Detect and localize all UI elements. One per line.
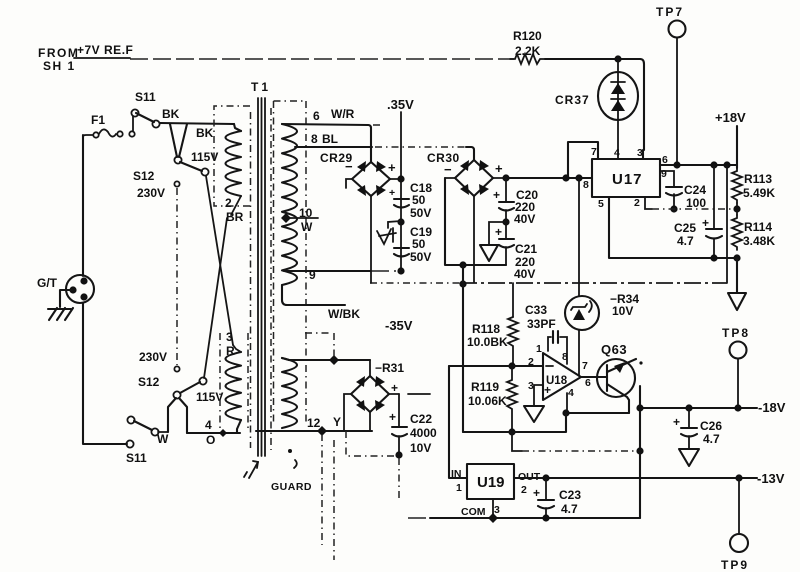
bridge rectifier CR29	[320, 151, 405, 283]
svg-text:4.7: 4.7	[703, 432, 720, 446]
svg-text:O: O	[206, 433, 215, 447]
wire U17 pin9 to C24	[660, 171, 674, 186]
svg-text:+: +	[391, 381, 398, 395]
svg-text:C21: C21	[515, 242, 537, 256]
capacitor C20	[493, 178, 538, 238]
wire R119 bottom to lower rail	[512, 432, 522, 451]
wire pin 12 to R31 bottom	[256, 426, 372, 436]
svg-text:50V: 50V	[410, 206, 431, 220]
switch S12 upper (115V/230V selector)	[133, 124, 218, 365]
wire pin6 W/R to CR29	[282, 107, 384, 162]
wire Q63 emitter to U18 pin4 and return rail	[463, 409, 629, 432]
svg-text:R119: R119	[471, 380, 499, 394]
wire S11 to transformer pin1	[160, 123, 234, 124]
svg-text:S12: S12	[133, 169, 155, 183]
transformer shield dashed box primary upper	[214, 106, 250, 206]
wire U18 pin3 to ground	[524, 385, 544, 422]
svg-text:2: 2	[225, 196, 232, 210]
svg-text:3: 3	[494, 504, 500, 516]
transistor Q63	[597, 342, 643, 413]
svg-text:C23: C23	[559, 488, 581, 502]
svg-text:BK: BK	[162, 107, 180, 121]
svg-text:TP9: TP9	[721, 558, 749, 572]
capacitor C22	[389, 394, 437, 500]
svg-text:5.49K: 5.49K	[743, 186, 775, 200]
wire crossover pin 2 to 115V lower contact	[204, 218, 227, 378]
svg-text:C25: C25	[674, 221, 696, 235]
test point TP8	[722, 326, 750, 408]
svg-text:8: 8	[311, 132, 318, 146]
svg-text:230V: 230V	[137, 186, 165, 200]
svg-text:C33: C33	[525, 303, 547, 317]
wire R120 to corner, down to U17 pin 3	[545, 59, 644, 159]
wire CR30 minus loop	[445, 178, 506, 269]
svg-text:6: 6	[585, 377, 591, 389]
ground below C26	[679, 449, 699, 466]
regulator U19	[451, 464, 541, 518]
transformer shield dashed box secondary	[274, 101, 307, 425]
svg-text:+7V RE.F: +7V RE.F	[77, 43, 133, 57]
capacitor C33 feedback	[525, 303, 567, 364]
svg-text:33PF: 33PF	[527, 317, 556, 331]
svg-text:10.0BK: 10.0BK	[467, 335, 508, 349]
capacitor C25	[674, 165, 722, 258]
title FROM SH 1	[38, 46, 79, 73]
zener diode R34	[565, 178, 639, 376]
ground chassis at plug	[48, 290, 73, 320]
svg-text:C24: C24	[684, 183, 706, 197]
svg-text:4: 4	[205, 418, 212, 432]
wire pin8 BL to CR30	[295, 132, 474, 160]
capacitor C23	[533, 478, 581, 518]
svg-text:+18V: +18V	[715, 110, 746, 125]
fuse F1	[83, 113, 135, 276]
wire U17 pin5 rail to R114 bottom	[609, 197, 741, 262]
wire collector drop	[639, 386, 641, 518]
ground at C20/C21 junction	[480, 222, 506, 261]
wire CR30 + output to U17 pin 8	[506, 177, 592, 179]
svg-text:+: +	[389, 410, 396, 424]
net -18V rail	[636, 400, 785, 415]
svg-text:F1: F1	[91, 113, 105, 127]
svg-text:+: +	[673, 415, 680, 429]
svg-text:10.06K: 10.06K	[468, 394, 507, 408]
svg-text:TP7: TP7	[656, 5, 684, 19]
svg-text:50V: 50V	[410, 250, 431, 264]
svg-text:R120: R120	[513, 29, 542, 43]
svg-text:2.2K: 2.2K	[515, 44, 541, 58]
svg-text:-13V: -13V	[757, 471, 785, 486]
svg-text:12: 12	[307, 416, 321, 430]
svg-text:+: +	[388, 160, 396, 175]
svg-text:1: 1	[536, 343, 542, 355]
svg-text:−: −	[444, 162, 452, 177]
capacitor C21	[495, 225, 537, 281]
svg-text:+: +	[495, 161, 503, 176]
svg-text:2: 2	[521, 484, 527, 496]
dashed guard lines below transformer	[305, 333, 334, 560]
svg-text:5: 5	[598, 198, 604, 210]
svg-text:3: 3	[226, 330, 233, 344]
svg-text:C26: C26	[700, 419, 722, 433]
node +35V bottom junction	[397, 267, 404, 274]
guard label and arrow	[244, 449, 312, 493]
transformer primary winding upper (pins 1-2 BK/BR)	[225, 124, 244, 224]
capacitor C19	[394, 225, 432, 264]
svg-text:R118: R118	[472, 322, 500, 336]
wire +7V REF line to R120	[130, 58, 514, 60]
wire crossover 115V upper contact to pin 3	[206, 176, 233, 345]
svg-text:BK: BK	[196, 126, 214, 140]
svg-text:BR: BR	[226, 210, 244, 224]
capacitor C24	[666, 183, 706, 213]
svg-text:G/T: G/T	[37, 276, 58, 290]
svg-text:40V: 40V	[514, 267, 535, 281]
svg-text:W/BK: W/BK	[328, 307, 360, 321]
wire left vertical CR30 return	[462, 265, 464, 432]
wire C22 bottom return	[346, 431, 396, 456]
wire U18 pin2 input	[449, 365, 543, 367]
svg-text:IN: IN	[451, 468, 462, 480]
svg-text:+: +	[389, 187, 395, 199]
transformer secondary winding upper (pins 6,8,10,9)	[282, 124, 297, 285]
svg-text:+: +	[533, 486, 540, 500]
svg-text:+: +	[702, 216, 709, 230]
wire U18 output to Q63 base	[581, 376, 607, 378]
svg-text:10V: 10V	[612, 304, 633, 318]
resistor R118	[467, 317, 518, 370]
svg-text:8: 8	[583, 179, 589, 191]
wire U17 pin6 +18V rail	[660, 161, 737, 168]
capacitor C18	[389, 181, 432, 220]
wire U17 pin7 loop to pin8 wire	[568, 142, 598, 178]
transformer shield lines	[250, 112, 252, 448]
wire plug to S11 lower	[83, 303, 127, 444]
wire transformer pin4	[187, 418, 240, 447]
resistor R113	[732, 168, 775, 203]
svg-text:.35V: .35V	[387, 97, 414, 112]
svg-text:TP8: TP8	[722, 326, 750, 340]
svg-text:S11: S11	[126, 451, 147, 465]
transformer core	[258, 98, 265, 456]
wire pin9 to +35V node	[284, 268, 396, 282]
op-amp U18	[528, 343, 591, 400]
svg-text:3.48K: 3.48K	[743, 234, 775, 248]
svg-text:+: +	[493, 188, 500, 202]
wire U17 pin2 to R113/R114 junction	[645, 197, 735, 209]
node C18/C19 junction with arrow symbol	[377, 218, 405, 244]
switch S11 upper	[131, 90, 179, 128]
svg-text:W/R: W/R	[331, 107, 355, 121]
svg-text:S11: S11	[135, 90, 156, 104]
svg-text:230V: 230V	[139, 350, 167, 364]
svg-text:4: 4	[614, 147, 620, 159]
node tap 10 W	[281, 206, 318, 234]
wire U19 COM rail	[408, 499, 640, 523]
wire R118 top from +18V rail	[512, 283, 514, 317]
svg-text:R113: R113	[744, 172, 772, 186]
wire U19 out to -13V	[514, 471, 785, 486]
svg-text:GUARD: GUARD	[271, 481, 312, 493]
wire lower secondary top to R31	[282, 355, 370, 365]
svg-text:4: 4	[568, 387, 574, 399]
svg-text:R114: R114	[744, 220, 772, 234]
net +18V	[715, 110, 746, 168]
svg-text:SH 1: SH 1	[43, 59, 76, 73]
svg-text:-18V: -18V	[758, 400, 786, 415]
bridge rectifier R31	[344, 360, 430, 431]
svg-text:C22: C22	[410, 412, 432, 426]
resistor R119	[468, 366, 517, 436]
svg-text:S12: S12	[138, 375, 160, 389]
svg-text:COM: COM	[461, 506, 486, 518]
net +35V	[387, 97, 414, 271]
svg-text:1: 1	[456, 482, 462, 494]
test point TP7	[656, 5, 686, 165]
switch S12 lower (115V/230V selector)	[138, 350, 223, 433]
svg-text:+: +	[495, 225, 502, 239]
svg-text:7: 7	[582, 360, 588, 372]
svg-text:BL: BL	[322, 132, 338, 146]
svg-text:100: 100	[686, 196, 706, 210]
svg-text:3: 3	[637, 147, 643, 159]
node junction at CR37 top	[614, 55, 621, 62]
svg-text:U17: U17	[612, 171, 643, 188]
wire W/BK lead	[282, 285, 360, 321]
svg-text:50: 50	[412, 237, 426, 251]
svg-text:8: 8	[562, 351, 568, 363]
test point TP9	[721, 478, 749, 572]
svg-text:40V: 40V	[514, 212, 535, 226]
svg-text:+: +	[544, 383, 551, 397]
svg-text:6: 6	[313, 109, 320, 123]
transformer secondary winding lower (pin 12 Y)	[282, 358, 341, 430]
svg-text:9: 9	[661, 168, 667, 180]
switch S11 lower	[126, 416, 169, 465]
svg-text:T1: T1	[251, 80, 271, 94]
svg-text:−: −	[345, 159, 353, 174]
bridge rectifier CR30	[427, 151, 510, 282]
transformer shield dashed lines primary lower	[220, 333, 248, 428]
connector plug G/T	[37, 275, 94, 303]
svg-text:4000: 4000	[410, 426, 437, 440]
svg-text:50: 50	[412, 193, 426, 207]
svg-text:7: 7	[591, 146, 597, 158]
wire U18 pin4	[566, 393, 568, 413]
svg-text:Q63: Q63	[601, 342, 627, 357]
svg-text:4.7: 4.7	[561, 502, 578, 516]
svg-text:2: 2	[634, 197, 640, 209]
svg-text:-35V: -35V	[385, 318, 413, 333]
op-amp regulator U17	[583, 146, 668, 210]
transformer primary winding lower (pins 3-4 R)	[226, 330, 242, 433]
resistor R114	[732, 215, 775, 250]
diode CR37 (dual diode in oval)	[555, 59, 638, 159]
svg-text:U19: U19	[477, 474, 505, 491]
node R113/R114 junction	[733, 203, 740, 215]
ground below R114	[728, 258, 746, 310]
capacitor C26	[673, 408, 722, 449]
net +7V REF label	[74, 43, 133, 58]
svg-text:−R31: −R31	[375, 361, 404, 375]
svg-text:CR37: CR37	[555, 93, 590, 107]
wire U19 input from pin2 node	[449, 366, 467, 478]
wire +18V feedback rail y283	[370, 165, 727, 288]
svg-text:Y: Y	[333, 415, 341, 429]
svg-text:4.7: 4.7	[677, 234, 694, 248]
resistor R120	[510, 29, 545, 64]
svg-text:10V: 10V	[410, 441, 431, 455]
svg-text:W: W	[301, 220, 313, 234]
